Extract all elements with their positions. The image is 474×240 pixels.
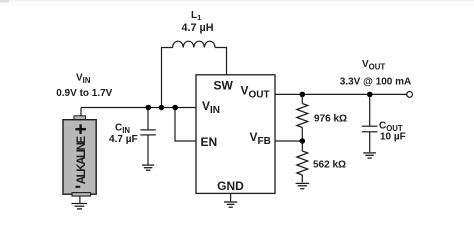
- svg-text:4.7 µH: 4.7 µH: [181, 22, 213, 34]
- svg-text:EN: EN: [201, 135, 218, 149]
- svg-text:976 kΩ: 976 kΩ: [314, 114, 347, 125]
- svg-text:3.3V @ 100 mA: 3.3V @ 100 mA: [340, 77, 411, 88]
- svg-text:0.9V to 1.7V: 0.9V to 1.7V: [56, 88, 112, 99]
- svg-text:562 kΩ: 562 kΩ: [313, 160, 346, 171]
- svg-text:GND: GND: [217, 179, 244, 193]
- svg-text:10 µF: 10 µF: [380, 132, 406, 143]
- svg-text:4.7 µF: 4.7 µF: [109, 134, 138, 145]
- svg-text:SW: SW: [214, 78, 234, 92]
- svg-text:ALKALINE: ALKALINE: [76, 136, 88, 185]
